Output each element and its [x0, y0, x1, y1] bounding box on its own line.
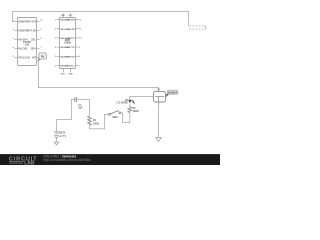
wire from U1 pin6 via net flag down to Q1 top — [37, 58, 159, 92]
wire R2 to LED — [129, 103, 131, 106]
svg-text:GND: GND — [68, 74, 73, 76]
svg-text:RB5/SCL: RB5/SCL — [66, 66, 76, 68]
ground (battery) — [54, 142, 59, 145]
svg-text:VSS: VSS — [61, 74, 66, 76]
wire LED to Q1 base — [130, 97, 154, 101]
svg-text:23008: 23008 — [64, 41, 71, 44]
chip U2 — [55, 13, 82, 75]
svg-text:VCC: VCC — [68, 15, 73, 17]
inductor L1 — [189, 26, 206, 29]
svg-text:GND/VREF OUT: GND/VREF OUT — [18, 20, 37, 23]
svg-text:RB3/CCP: RB3/CCP — [65, 47, 75, 49]
svg-text:RB4/SDA: RB4/SDA — [65, 55, 75, 58]
svg-text:1µF: 1µF — [78, 107, 83, 110]
wire battery bottom — [56, 138, 58, 143]
ground (Q1) — [156, 138, 162, 142]
net flag balloon on U1 pin6 — [37, 53, 46, 62]
svg-text:SCL: SCL — [31, 38, 36, 41]
svg-text:IN-/CH3: IN-/CH3 — [18, 47, 27, 50]
svg-text:LTL-307EE: LTL-307EE — [116, 102, 128, 104]
svg-text:RB1/RX: RB1/RX — [67, 29, 76, 31]
svg-text:13A: 13A — [25, 44, 30, 47]
svg-text:GND/VREF: GND/VREF — [18, 29, 31, 32]
wire battery top to C1 — [57, 100, 75, 132]
svg-text:1: 1 — [159, 103, 160, 105]
svg-text:5V: 5V — [41, 55, 45, 59]
resistor R2 — [128, 106, 139, 113]
svg-text:http://circuitlab.com/cv4b29fa: http://circuitlab.com/cv4b29fau — [43, 158, 90, 162]
svg-text:RB0/INT: RB0/INT — [66, 20, 75, 22]
balloon label for Q1 — [166, 90, 178, 97]
transistor Q1 (boxed) — [154, 89, 166, 106]
svg-text:180Ω: 180Ω — [133, 110, 139, 113]
svg-text:2N3904: 2N3904 — [168, 90, 178, 94]
svg-text:SDA: SDA — [31, 47, 36, 50]
svg-text:SW1: SW1 — [112, 116, 118, 119]
svg-text:+2.7 V: +2.7 V — [59, 135, 67, 138]
wire C1 to R1 — [77, 100, 90, 116]
chip U1 — [13, 18, 44, 66]
switch SW1 — [109, 110, 121, 119]
footer bar — [0, 154, 220, 166]
svg-text:XTAL/CH2: XTAL/CH2 — [18, 56, 30, 59]
svg-text:100Ω: 100Ω — [93, 122, 99, 125]
LED D1 — [116, 100, 134, 105]
capacitor C1 — [75, 97, 83, 110]
svg-text:1.8V: 1.8V — [31, 29, 36, 32]
svg-text:INT: INT — [32, 56, 36, 59]
svg-text:VDD: VDD — [61, 15, 66, 17]
resistor R1 — [88, 116, 99, 126]
wire top rail from U1 pin1 to L1 — [13, 12, 189, 26]
svg-text:LAB: LAB — [24, 160, 35, 165]
wire R1 to SW1 — [90, 115, 109, 129]
wire Q1 emitter to ground — [158, 102, 160, 138]
wire SW1 to R2 — [121, 113, 130, 123]
battery BAT1 — [54, 100, 75, 145]
